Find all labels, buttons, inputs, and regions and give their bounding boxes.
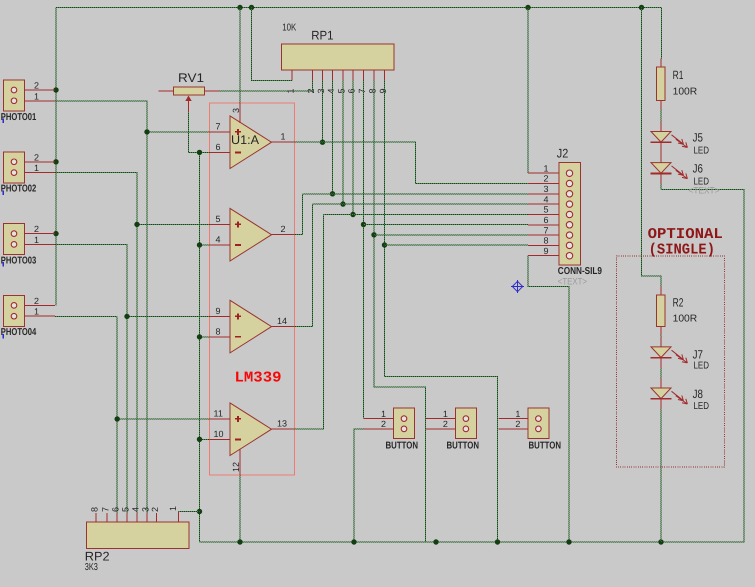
svg-text:7: 7: [101, 507, 111, 512]
LED J5 cathode lead: [660, 143, 662, 153]
junction: rail / LED J8 chain: [658, 539, 663, 544]
junction: bus / pin8: [197, 334, 202, 339]
svg-text:2: 2: [281, 224, 286, 234]
svg-text:2: 2: [306, 88, 316, 93]
RP2 pin 6 stub: [116, 513, 118, 522]
wire: VCC rail down to R1: [661, 8, 663, 59]
wire: PHOTO01 pin1 to U1 pin7 / RP2 pin3: [55, 101, 147, 513]
connector J2 CONN-SIL9: [559, 163, 581, 266]
svg-text:1: 1: [34, 163, 39, 173]
junction: PHOTO02 signal / U1 pin5: [134, 222, 139, 227]
svg-text:1: 1: [281, 131, 286, 141]
svg-text:14: 14: [277, 316, 287, 326]
U1:C output pin 14 lead: [272, 326, 295, 328]
J2 pin 7 lead: [528, 234, 559, 236]
svg-text:4: 4: [544, 194, 549, 204]
wire: R2 to LED J7: [660, 335, 662, 337]
J2 pin 9 lead: [528, 255, 559, 257]
BUTTON2 pin 1 lead: [426, 418, 456, 420]
op-amp U1:B comparator: [230, 208, 272, 261]
svg-text:2: 2: [34, 296, 39, 306]
RP1 pin 6 stub: [352, 70, 354, 81]
editor origin marker (blue): [511, 280, 524, 293]
svg-text:5: 5: [121, 507, 131, 512]
junction: left rail / PHOTO2 pin2: [53, 159, 58, 164]
RV1 pin 1 lead (unconnected stub): [158, 90, 173, 92]
R2 bottom lead: [660, 326, 662, 335]
wire: BUTTON2 pin2 drop: [425, 419, 427, 542]
R1 top lead: [660, 59, 662, 68]
svg-text:RP1: RP1: [311, 29, 333, 43]
PHOTO02 pin 1: [25, 172, 56, 174]
wire: U1 pin 12 to bottom rail: [239, 475, 241, 542]
wire: out3 (U1:C pin14) riser to J2 pin4 line: [294, 204, 312, 327]
svg-text:LED: LED: [694, 145, 710, 156]
LED J7 anode lead: [660, 337, 662, 347]
svg-text:3K3: 3K3: [85, 562, 98, 573]
svg-text:5: 5: [216, 214, 221, 224]
RP1 pin 8 stub: [373, 70, 375, 81]
wire: J2 pin4 line: [313, 203, 529, 205]
wire: U1 pin9 input line: [127, 315, 210, 317]
wire: J6 cathode to right rail: [660, 184, 662, 190]
J2 pin 3 lead: [528, 193, 559, 195]
svg-text:7: 7: [544, 225, 549, 235]
LED J7 cathode lead: [660, 358, 662, 368]
junction: rail / BUTTON1 pin2: [351, 539, 356, 544]
U1 ground pin 12 lead: [239, 449, 241, 475]
svg-text:PHOTO04: PHOTO04: [1, 327, 37, 338]
junction: top rail / J2 pin1 feed: [525, 5, 530, 10]
wire: R1 to LED J5: [660, 110, 662, 122]
RP1 pin 9 stub: [384, 70, 386, 81]
svg-text:3: 3: [544, 184, 549, 194]
svg-text:1: 1: [34, 307, 39, 317]
svg-text:10K: 10K: [282, 23, 296, 34]
PHOTO02 label origin marker: [3, 190, 5, 195]
svg-text:1: 1: [381, 409, 386, 419]
svg-text:1: 1: [34, 235, 39, 245]
svg-text:R1: R1: [673, 68, 684, 82]
connector PHOTO02: [4, 152, 25, 183]
U1:B output pin 2 lead: [272, 234, 295, 236]
junction: top rail / R2 branch: [639, 5, 644, 10]
RP1 pin 5 stub: [342, 70, 344, 81]
junction: left rail / PHOTO3 pin2: [53, 231, 58, 236]
wire: PHOTO03 pin1 to U1 pin9 / RP2 pin5: [55, 244, 127, 513]
OPTIONAL (SINGLE) group box: [616, 256, 724, 467]
svg-text:R2: R2: [673, 295, 684, 309]
svg-text:BUTTON: BUTTON: [386, 440, 419, 451]
RP2 pin 8 stub: [95, 513, 97, 522]
junction: PHOTO01 signal / U1 pin7: [144, 129, 149, 134]
svg-text:6: 6: [544, 215, 549, 225]
PHOTO04 pin 1: [25, 315, 56, 317]
junction: RP1 pin4 / J2 pin3 line: [330, 191, 335, 196]
wire: J2 pin8 line (BUTTON3 net): [385, 244, 529, 246]
svg-text:2: 2: [34, 81, 39, 91]
wire: U1 pin6 input line from RV1 wiper bus: [200, 151, 210, 153]
J2 pin 2 lead: [528, 183, 559, 185]
junction: RP1 pin9 / J2 pin8 line: [382, 242, 387, 247]
junction: RP1 pin3 / out1: [320, 140, 325, 145]
svg-text:1: 1: [544, 163, 549, 173]
svg-text:LED: LED: [694, 401, 710, 412]
R2 top lead: [660, 287, 662, 296]
svg-text:4: 4: [216, 235, 221, 245]
wire: out1 (U1:A pin1) to J2 pin2: [294, 142, 528, 183]
svg-text:5: 5: [337, 88, 347, 93]
wire: U1 pin5 input line: [137, 223, 210, 225]
svg-text:100R: 100R: [673, 314, 698, 325]
junction: RP1 pin7 / J2 pin6 line: [361, 222, 366, 227]
wire: PHOTO04 signal down to U1 pin11 / RP2 pin6: [116, 316, 118, 513]
svg-text:CONN-SIL9: CONN-SIL9: [558, 266, 603, 277]
svg-text:LM339: LM339: [235, 370, 282, 387]
junction: rail / BUTTON3 pin2: [495, 539, 500, 544]
RP1 pin 4 stub: [332, 70, 334, 81]
svg-text:3: 3: [231, 108, 241, 113]
wire: J2 pin9 to bottom rail: [528, 256, 569, 542]
PHOTO01 pin 2: [25, 89, 56, 91]
svg-text:8: 8: [368, 88, 378, 93]
junction: RP1 pin6 / J2 pin5 line: [350, 212, 355, 217]
wire: J2 pin5 line: [324, 214, 529, 216]
RV1 pin 2 lead: [205, 90, 220, 92]
wire: RP1 pin3 pull-up to out1: [322, 81, 324, 143]
junction: RP1 pin5 / J2 pin4 line: [340, 201, 345, 206]
svg-text:J5: J5: [693, 130, 704, 144]
svg-text:2: 2: [34, 224, 39, 234]
op-amp U1 LM339 package outline box: [210, 103, 295, 475]
junction: PHOTO03 signal / U1 pin9: [124, 314, 129, 319]
resistor pack RP1: [281, 44, 394, 70]
RP2 pin 2 stub: [156, 513, 158, 522]
svg-text:12: 12: [231, 462, 241, 472]
connector PHOTO03: [4, 224, 25, 255]
svg-text:BUTTON: BUTTON: [447, 440, 480, 451]
PHOTO04 pin 2: [25, 304, 56, 306]
wire: J2 pin1 from VCC rail: [527, 8, 529, 174]
wire: out2 (U1:B pin2) riser to J2 pin3 line: [294, 194, 302, 235]
wire: PHOTO02 pin1 to U1 pin5 / RP2 pin4: [55, 173, 137, 513]
svg-text:4: 4: [131, 507, 141, 512]
BUTTON1 pin 1 lead: [364, 418, 394, 420]
op-amp U1:A comparator: [230, 116, 272, 169]
PHOTO04 label origin marker: [3, 334, 5, 339]
resistor pack RP2: [86, 522, 189, 548]
PHOTO03 pin 1: [25, 243, 56, 245]
wire: RP1 pin4 pull-up to J2 pin3 line: [332, 81, 334, 194]
resistor R1: [656, 67, 665, 100]
RP1 pin 1 stub: [291, 70, 293, 81]
svg-text:J7: J7: [693, 347, 704, 361]
wire: RV1 wiper to minus bus: [189, 112, 200, 152]
BUTTON2 pin 2 lead: [426, 428, 456, 430]
J2 pin 4 lead: [528, 203, 559, 205]
wire: J5 to J6: [660, 152, 662, 154]
PHOTO02 pin 2: [25, 161, 56, 163]
wire: RP1 pin7 pull-up down to BUTTON1 pin1: [363, 81, 365, 419]
wire: PHOTO04 pin1 along U1 pin9 row: [55, 315, 117, 317]
svg-text:4: 4: [326, 88, 336, 93]
svg-text:6: 6: [347, 88, 357, 93]
wire: VCC branch to R2 (through OPTIONAL box): [642, 8, 662, 287]
LED J8 cathode lead: [660, 399, 662, 409]
LED J6 anode lead: [660, 153, 662, 163]
wire: left VCC rail down PHOTO pin2 column: [55, 8, 57, 306]
junction: rail (stray): [433, 539, 438, 544]
push button BUTTON2: [455, 408, 476, 439]
op-amp U1:C comparator: [230, 300, 272, 353]
wire: U1 pin11 input line: [117, 418, 209, 420]
op-amp U1:D comparator: [230, 403, 272, 456]
junction: rail / U1 pin12: [237, 539, 242, 544]
U1:C pin 9 (+) input lead: [210, 315, 231, 317]
RP1 pin 7 stub: [363, 70, 365, 81]
junction: rail / J2 pin9: [566, 539, 571, 544]
svg-text:9: 9: [544, 246, 549, 256]
svg-text:BUTTON: BUTTON: [529, 440, 562, 451]
wire: J8 cathode to bottom rail: [660, 409, 662, 542]
svg-text:6: 6: [216, 142, 221, 152]
push button BUTTON3: [528, 408, 549, 439]
PHOTO01 pin 1: [25, 100, 56, 102]
svg-text:2: 2: [515, 419, 520, 429]
RP2 pin 7 stub: [106, 513, 108, 522]
LED J8 anode lead: [660, 378, 662, 388]
svg-text:8: 8: [216, 327, 221, 337]
LED J6: [651, 163, 688, 179]
wire: BUTTON1 pin2 to bottom rail: [354, 429, 364, 542]
svg-text:8: 8: [544, 236, 549, 246]
J2 pin 5 lead: [528, 214, 559, 216]
RP2 pin 4 stub: [136, 513, 138, 522]
svg-text:(SINGLE): (SINGLE): [649, 241, 715, 258]
push button BUTTON1: [394, 408, 415, 439]
wire: J2 pin6 line (BUTTON1 net): [364, 224, 529, 226]
wire: J2 pin7 line (BUTTON2 net): [374, 234, 528, 236]
PHOTO03 pin 2: [25, 233, 56, 235]
BUTTON1 pin 2 lead: [364, 428, 394, 430]
svg-text:9: 9: [378, 88, 388, 93]
svg-text:<TEXT>: <TEXT>: [689, 185, 720, 196]
svg-text:2: 2: [34, 152, 39, 162]
svg-text:5: 5: [544, 205, 549, 215]
wire: RV1 pin2 to RP1 pin2: [220, 81, 313, 91]
U1:A output pin 1 lead: [272, 141, 295, 143]
U1:A pin 6 (-) input lead: [210, 152, 231, 154]
J2 pin 1 lead: [528, 172, 559, 174]
junction: bus top / pin6: [197, 150, 202, 155]
PHOTO03 label origin marker: [3, 262, 5, 267]
svg-text:11: 11: [214, 409, 223, 419]
svg-text:1: 1: [286, 88, 296, 93]
wire: RP1 pin9 pull-up down to BUTTON3 pin1: [385, 81, 498, 419]
svg-text:13: 13: [277, 418, 287, 428]
LED J7: [651, 347, 688, 363]
svg-text:PHOTO01: PHOTO01: [1, 112, 37, 123]
J2 pin 6 lead: [528, 224, 559, 226]
svg-text:10: 10: [214, 429, 224, 439]
svg-text:LED: LED: [694, 360, 710, 371]
svg-text:1: 1: [443, 409, 448, 419]
svg-text:2: 2: [381, 419, 386, 429]
svg-text:1: 1: [515, 409, 520, 419]
potentiometer RV1: [174, 87, 205, 95]
wire: U1 pin8 input line: [200, 336, 210, 338]
wire: out4 (U1:D pin13) riser to J2 pin5 line: [294, 215, 323, 430]
wire: bottom common rail: [200, 190, 745, 543]
svg-text:7: 7: [216, 122, 221, 132]
svg-text:2: 2: [544, 174, 549, 184]
wire: RP2 pin1 to reference bus: [179, 511, 200, 513]
wire: U1 pin7 input line: [147, 131, 210, 133]
connector PHOTO04: [4, 295, 25, 326]
wire: reference bus (RV1 wiper to minus inputs, RP2 pin1, bottom rail): [199, 152, 201, 542]
svg-text:J8: J8: [693, 387, 704, 401]
RP1 pin 2 stub: [312, 70, 314, 81]
svg-text:3: 3: [316, 88, 326, 93]
junction: bus / pin4: [197, 242, 202, 247]
U1:C pin 8 (-) input lead: [210, 336, 231, 338]
wire: U1 pin 3 to VCC rail: [239, 8, 241, 104]
junction: bus / RP2 pin1: [197, 509, 202, 514]
LED J5 anode lead: [660, 122, 662, 132]
junction: PHOTO04 signal / U1 pin11: [115, 416, 120, 421]
wire: RP1 pin6 pull-up to J2 pin5 line: [352, 81, 354, 215]
wire: J2 pin3 line: [303, 193, 529, 195]
LED J6 cathode lead: [660, 174, 662, 184]
U1:D pin 10 (-) input lead: [210, 439, 231, 441]
svg-text:J6: J6: [693, 162, 704, 176]
RP1 pin 3 stub: [322, 70, 324, 81]
svg-text:PHOTO03: PHOTO03: [1, 255, 37, 266]
RP2 pin 3 stub: [146, 513, 148, 522]
LED J5: [651, 132, 688, 148]
wire: RP1 pin8 pull-up down to BUTTON2 pin1: [374, 81, 426, 419]
connector PHOTO01: [4, 80, 25, 111]
LED J8: [651, 388, 688, 404]
R1 bottom lead: [660, 100, 662, 110]
junction: top rail / RP1 pin1 feed: [249, 5, 254, 10]
svg-text:RV1: RV1: [178, 71, 204, 85]
svg-text:1: 1: [34, 91, 39, 101]
svg-text:PHOTO02: PHOTO02: [1, 184, 37, 195]
svg-text:3: 3: [141, 507, 151, 512]
svg-text:100R: 100R: [673, 87, 698, 98]
RP2 pin 5 stub: [126, 513, 128, 522]
svg-text:<TEXT>: <TEXT>: [558, 277, 588, 288]
junction: bus / pin10: [197, 437, 202, 442]
BUTTON3 pin 2 lead: [498, 428, 528, 430]
U1:A pin 7 (+) input lead: [210, 131, 231, 133]
svg-text:1: 1: [168, 506, 178, 511]
RV1 wiper arrow: [185, 96, 191, 113]
BUTTON3 pin 1 lead: [498, 418, 528, 420]
junction: top rail / U1 pin3 feed: [237, 5, 242, 10]
resistor R2: [656, 295, 665, 326]
wire: RP1 pin5 pull-up to J2 pin4 line: [342, 81, 344, 205]
J2 pin 8 lead: [528, 244, 559, 246]
junction: RP1 pin8 / J2 pin7 line: [371, 232, 376, 237]
svg-text:U1:A: U1:A: [231, 133, 260, 147]
U1 power pin 3 lead: [239, 103, 241, 123]
svg-text:8: 8: [90, 507, 100, 512]
svg-text:2: 2: [443, 419, 448, 429]
wire: U1 pin10 input line: [200, 438, 210, 440]
wire: BUTTON3 pin2 drop: [497, 419, 499, 542]
svg-text:7: 7: [357, 88, 367, 93]
wire: VCC top rail: [56, 7, 662, 9]
svg-text:6: 6: [111, 507, 121, 512]
wire: U1 pin4 input line: [200, 244, 210, 246]
U1:D pin 11 (+) input lead: [210, 418, 231, 420]
svg-text:J2: J2: [557, 147, 569, 161]
svg-text:2: 2: [150, 507, 160, 512]
U1:B pin 5 (+) input lead: [210, 223, 231, 225]
U1:D output pin 13 lead: [272, 428, 295, 430]
wire: J7 to J8: [660, 368, 662, 378]
svg-text:9: 9: [216, 306, 221, 316]
U1:B pin 4 (-) input lead: [210, 244, 231, 246]
wire: RP1 pin1 to VCC rail: [252, 8, 293, 81]
junction: left rail / PHOTO1 pin2: [53, 87, 58, 92]
RP2 pin 1 stub: [178, 512, 180, 523]
PHOTO01 label origin marker: [3, 119, 5, 124]
